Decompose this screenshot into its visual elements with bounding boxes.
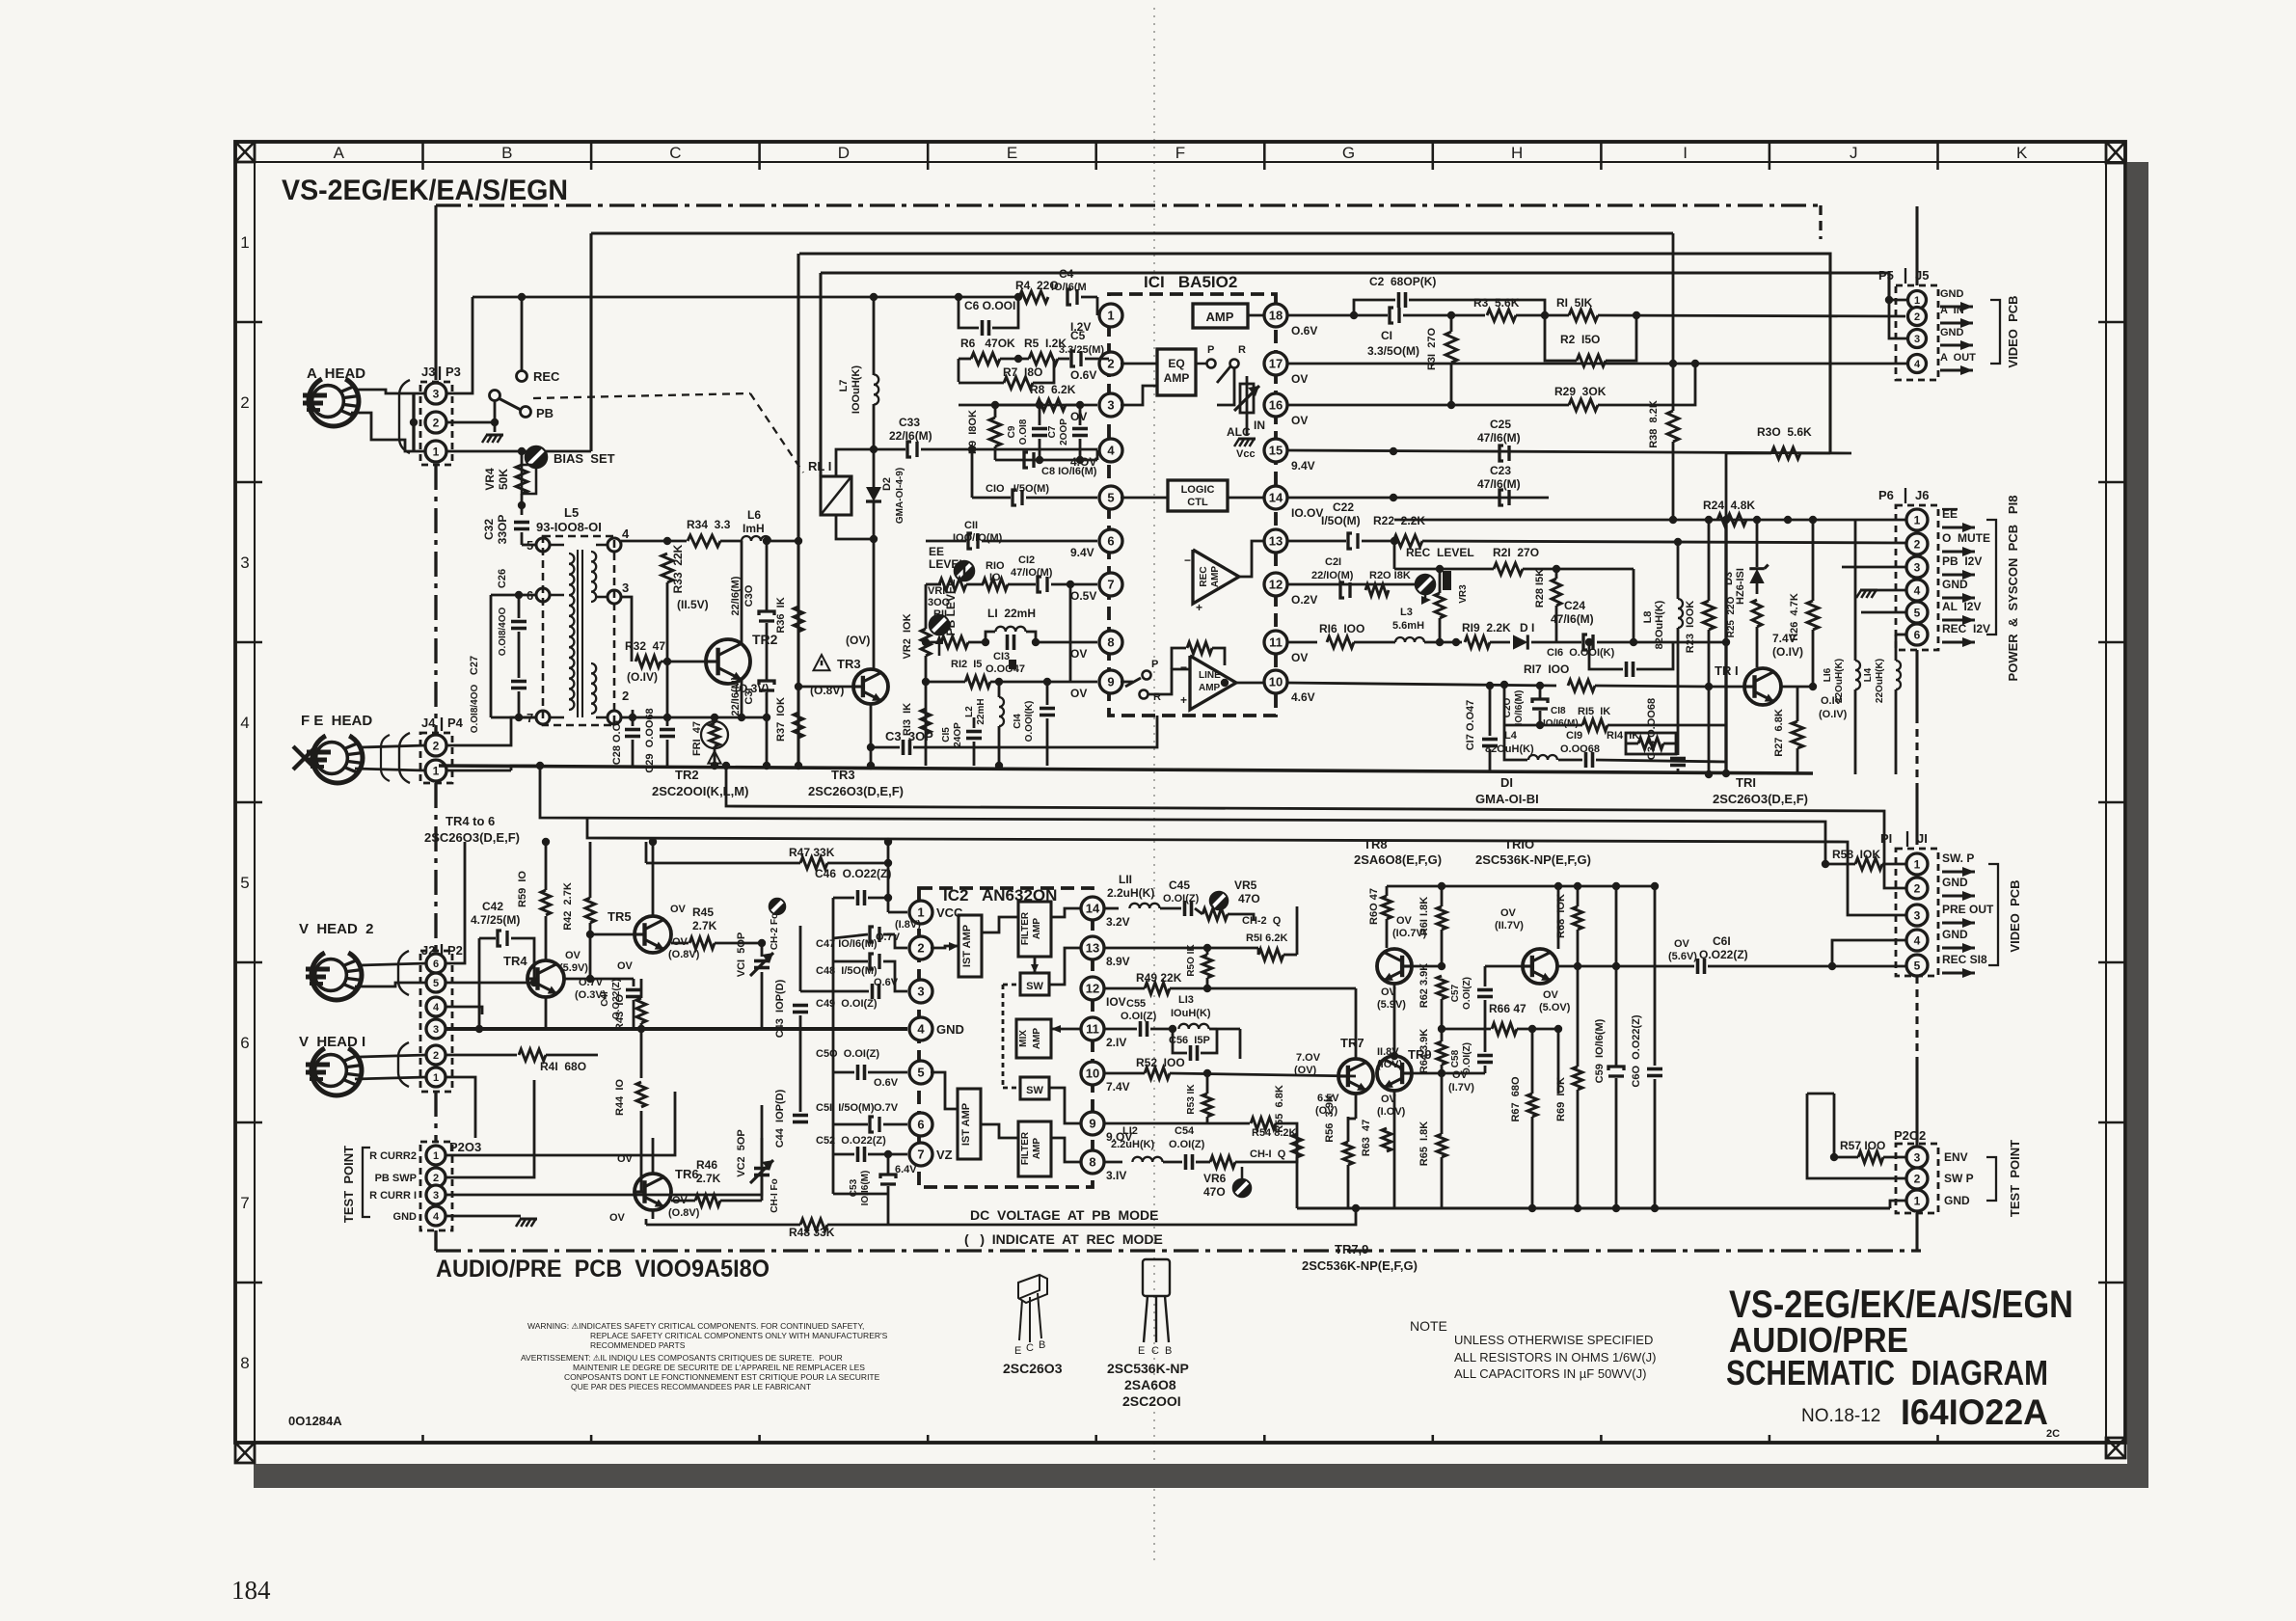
arrow into 1st amp upper (949, 942, 959, 951)
svg-text:IN: IN (1254, 419, 1265, 432)
connector P1 pin 3 (1906, 905, 1928, 926)
wire FR1 leads (714, 717, 716, 723)
svg-text:VR6: VR6 (1203, 1172, 1227, 1185)
svg-text:2SC26O3(D,E,F): 2SC26O3(D,E,F) (424, 830, 520, 845)
L16 coil (1855, 661, 1860, 689)
wire RL1 top stub (836, 449, 874, 476)
R67 actual (1531, 1029, 1534, 1094)
svg-text:13: 13 (1086, 941, 1099, 956)
TR3 warning triangle (814, 655, 830, 670)
dashed diagonal to RL1 (750, 393, 803, 473)
wire pin10 right (1287, 683, 1556, 686)
svg-text:AMP: AMP (1164, 371, 1190, 385)
P1 pin 5 arrow (1942, 971, 1975, 974)
svg-text:C45: C45 (1169, 878, 1190, 892)
svg-text:TR5: TR5 (608, 909, 632, 924)
connector P1 pin 4 (1906, 930, 1928, 951)
grid column tick C (590, 142, 593, 170)
svg-text:(5.OV): (5.OV) (1539, 1002, 1571, 1013)
IC1 pin 7 (1097, 573, 1121, 596)
svg-text:11: 11 (1269, 635, 1283, 650)
wire R57 feed (1833, 1094, 1836, 1157)
svg-text:18: 18 (1269, 309, 1283, 323)
wire pin16 right (1287, 404, 1475, 407)
svg-text:10: 10 (1269, 675, 1283, 689)
svg-text:5: 5 (1914, 959, 1921, 972)
R67 resistor (1527, 1094, 1537, 1117)
R13 resistor (921, 709, 931, 734)
svg-text:K: K (2016, 144, 2028, 162)
IC2 pin 12 (1081, 977, 1104, 1000)
svg-text:TR2: TR2 (675, 768, 699, 782)
svg-text:E: E (1014, 1345, 1021, 1357)
scan shadow band right edge (2127, 162, 2148, 1488)
connector P6 pin 1 (1906, 509, 1928, 530)
svg-text:R55 6.8K: R55 6.8K (1274, 1085, 1285, 1133)
svg-text:2: 2 (433, 1173, 439, 1184)
R56 resistor (1343, 1142, 1353, 1165)
svg-text:C8 IO/I6(M): C8 IO/I6(M) (1041, 466, 1097, 477)
svg-text:3: 3 (1914, 560, 1921, 574)
svg-text:C: C (1151, 1345, 1159, 1357)
C24 capacitor (1591, 635, 1594, 650)
VR3 column wires (1439, 569, 1442, 593)
svg-text:CI3: CI3 (993, 651, 1010, 662)
svg-text:C59 IO/I6(M): C59 IO/I6(M) (1594, 1018, 1606, 1083)
L5 core lines (577, 550, 579, 717)
wire LINE AMP out to pin10 (1236, 682, 1264, 685)
svg-text:2C: 2C (2046, 1428, 2060, 1440)
svg-text:RECOMMENDED PARTS: RECOMMENDED PARTS (590, 1340, 686, 1350)
svg-text:9: 9 (1089, 1117, 1095, 1131)
svg-text:6: 6 (1914, 628, 1921, 641)
wire J2 pin3 right (gnd trace) (446, 1027, 907, 1031)
svg-text:NOTE: NOTE (1410, 1318, 1447, 1334)
wire C8 to pin4 (1096, 450, 1099, 460)
IC1 pin 2 (1097, 352, 1121, 375)
R17 resistor (1568, 680, 1595, 691)
wire TR10 body (1557, 886, 1560, 949)
IC1 pin 16 (1264, 393, 1287, 417)
P5 pin 1 arrow (1940, 305, 1973, 308)
R14 leads (1626, 743, 1638, 745)
svg-text:9: 9 (1107, 675, 1114, 689)
svg-text:ENV: ENV (1944, 1150, 1968, 1164)
svg-text:3.IV: 3.IV (1106, 1169, 1126, 1182)
svg-text:IO/I6(M): IO/I6(M) (1543, 718, 1579, 729)
wire R54 right (1276, 1123, 1297, 1148)
svg-text:4.6V: 4.6V (1291, 690, 1315, 704)
R47 resistor (800, 857, 827, 869)
wire VCC into pin1 (888, 911, 907, 914)
svg-text:22OuH(K): 22OuH(K) (1875, 659, 1885, 703)
svg-text:2SC536K-NP(E,F,G): 2SC536K-NP(E,F,G) (1302, 1258, 1418, 1273)
C19 capacitor (1584, 752, 1588, 768)
svg-text:C44 IOP(D): C44 IOP(D) (774, 1089, 786, 1148)
connector P203 dashed box (420, 1142, 452, 1230)
svg-text:8: 8 (1107, 635, 1114, 650)
svg-text:CH-2 Fo: CH-2 Fo (770, 913, 780, 950)
wire R34 to L6 (720, 540, 741, 543)
wire L5 pin3 to R32 (621, 597, 632, 662)
svg-text:AMP: AMP (1206, 310, 1234, 324)
arrow mix out (1051, 1025, 1061, 1033)
wire V HEAD2 low to J2 pin5 (355, 983, 426, 986)
svg-text:VIDEO PCB: VIDEO PCB (2008, 879, 2022, 952)
border frame right column line (2105, 142, 2107, 1443)
wire mix amp to pin11 (1051, 1028, 1081, 1031)
wire C48 (833, 960, 868, 963)
wire TR1 base from R23 (1709, 686, 1745, 689)
svg-text:O MUTE: O MUTE (1942, 531, 1990, 545)
svg-text:1: 1 (433, 445, 440, 458)
svg-text:IO/I6(M): IO/I6(M) (1514, 690, 1525, 726)
svg-text:C42: C42 (482, 900, 503, 913)
svg-text:R57 IOO: R57 IOO (1840, 1139, 1885, 1152)
svg-text:CH-I Q: CH-I Q (1250, 1148, 1286, 1160)
R12 resistor (965, 676, 990, 688)
wire pin12 right to VR3 (1287, 583, 1416, 586)
svg-text:PB SWP: PB SWP (375, 1173, 417, 1184)
svg-text:D3: D3 (1723, 572, 1735, 585)
wire R66 row (1442, 1028, 1491, 1031)
wire TR9 emitter up (1393, 1055, 1396, 1058)
wire C17 (1489, 686, 1492, 736)
L11 coil (1129, 904, 1159, 908)
wire R46 right (720, 1200, 762, 1202)
wire C26/C27 vertical (490, 595, 493, 717)
wire P202 pin2 link (1807, 1094, 1906, 1178)
svg-text:NO.18-12: NO.18-12 (1801, 1406, 1880, 1426)
svg-text:PB LEVEL: PB LEVEL (944, 580, 958, 636)
svg-text:2SC2OOI(K,L,M): 2SC2OOI(K,L,M) (652, 784, 748, 798)
svg-text:IST AMP: IST AMP (961, 925, 973, 967)
R63 resistor (1382, 1128, 1391, 1151)
svg-text:2: 2 (433, 416, 440, 429)
C10 capacitor (1020, 490, 1023, 505)
svg-text:2SC26O3(D,E,F): 2SC26O3(D,E,F) (1713, 792, 1808, 806)
svg-text:O.OI8/4OO: O.OI8/4OO (470, 684, 480, 733)
wire R58 (1825, 863, 1855, 866)
svg-text:R45: R45 (692, 905, 714, 919)
svg-text:P2O2: P2O2 (1894, 1128, 1926, 1143)
wire into P6 pin5 (1861, 611, 1906, 614)
border frame header strip line (235, 161, 2125, 163)
wire TR8 collector down (1393, 984, 1396, 1056)
wire VR6 wiper (1241, 1167, 1244, 1180)
wire L11 to C45 (1160, 907, 1181, 910)
svg-text:LI3: LI3 (1178, 994, 1194, 1006)
L2 coil (999, 697, 1004, 726)
svg-text:2: 2 (240, 393, 249, 412)
svg-text:RIO: RIO (986, 560, 1005, 572)
svg-text:C29 O.OO68: C29 O.OO68 (644, 708, 656, 772)
svg-text:FILTER: FILTER (1020, 1131, 1031, 1165)
wire R56 (1347, 1117, 1350, 1142)
svg-text:VZ: VZ (936, 1148, 953, 1162)
svg-text:GND: GND (1942, 876, 1968, 889)
svg-text:R53 IK: R53 IK (1186, 1084, 1197, 1115)
P6 pin 6 arrow (1942, 640, 1975, 643)
EE LEVEL pot dot (955, 561, 974, 581)
svg-text:4: 4 (1107, 444, 1115, 458)
P6 dashed stub below (1915, 650, 1918, 716)
R48 resistor (800, 1219, 827, 1230)
svg-text:GND: GND (936, 1022, 964, 1037)
TR10 transistor (1523, 949, 1557, 984)
junction top feed (518, 293, 526, 301)
svg-text:22mH: 22mH (976, 698, 986, 724)
svg-text:REPLACE SAFETY CRITICAL COMPON: REPLACE SAFETY CRITICAL COMPONENTS ONLY … (590, 1331, 888, 1340)
C46 loop (833, 897, 854, 900)
R32 resistor (635, 656, 661, 667)
C29 capacitor (660, 728, 675, 732)
svg-text:(O.IV): (O.IV) (1772, 645, 1803, 659)
connector J2 pin 2 (426, 1045, 446, 1065)
IC1 pin 6 (1097, 529, 1121, 553)
L5 pin 7 (536, 711, 550, 724)
pcb boundary dash-dot bottom (436, 1249, 1921, 1252)
svg-text:TEST POINT: TEST POINT (341, 1146, 356, 1223)
svg-text:O.O22(Z): O.O22(Z) (1699, 948, 1748, 961)
svg-text:B: B (1039, 1339, 1045, 1351)
P5 bracket (1990, 300, 2000, 364)
svg-text:24OP: 24OP (953, 722, 963, 747)
svg-text:R49 22K: R49 22K (1136, 971, 1182, 985)
svg-text:2: 2 (1914, 537, 1921, 551)
L1 coil (995, 627, 1025, 632)
wire C24 right (1597, 641, 1726, 644)
wire pin10 row (1104, 1072, 1145, 1075)
svg-text:33OP: 33OP (496, 515, 509, 545)
R25 resistor (1752, 600, 1762, 627)
wire pin14 right (1104, 907, 1119, 910)
svg-text:CI7 O.O47: CI7 O.O47 (1465, 700, 1476, 751)
IC2 pin 2 (907, 936, 931, 959)
REC switch contact (517, 371, 527, 382)
wire filter upper to pin14 (1051, 908, 1081, 917)
wire pin3 to EQ AMP (1121, 386, 1157, 405)
wire pin13 right (1287, 540, 1346, 543)
L5 winding stubs (550, 544, 564, 547)
L5 dashed box (543, 536, 614, 725)
C3 wire (871, 746, 900, 749)
wire C51 (833, 1123, 868, 1126)
svg-text:3: 3 (622, 581, 629, 595)
wire R22 right (O MUTE line) (1362, 540, 1393, 543)
wire R60 (1386, 886, 1389, 896)
R57 resistor (1858, 1151, 1883, 1163)
wire TR3 emitter (870, 704, 873, 766)
R42 resistor (585, 898, 595, 923)
wire J2 pin1 right down (446, 1077, 475, 1138)
svg-text:47O: 47O (1203, 1185, 1226, 1199)
svg-text:GMA-OI-4-9): GMA-OI-4-9) (895, 468, 905, 524)
feedback resistor LINE AMP (1172, 648, 1186, 669)
svg-text:TR3: TR3 (831, 768, 855, 782)
R46 resistor (695, 1195, 720, 1206)
C43 capacitor (793, 1004, 808, 1008)
svg-text:L3: L3 (1400, 607, 1413, 618)
wire R62 down (1441, 999, 1444, 1029)
C56 capacitor (1189, 1045, 1193, 1061)
corner X-box bottom-left (235, 1443, 255, 1463)
R44 resistor (636, 1082, 646, 1107)
svg-text:J3: J3 (421, 365, 435, 379)
wire top feed to R4 row (473, 296, 1018, 299)
R21 resistor (1494, 563, 1523, 575)
svg-text:22/IO(M): 22/IO(M) (1311, 570, 1354, 581)
wire AMP to pin18 (1248, 314, 1264, 317)
wire pin1 entry (1096, 297, 1099, 315)
IC1 pin 18 (1264, 304, 1287, 327)
C28 capacitor (625, 728, 640, 732)
svg-text:C57: C57 (1450, 984, 1461, 1002)
svg-text:2.7K: 2.7K (692, 919, 717, 932)
R14 resistor (1638, 738, 1663, 749)
wire D2 column (873, 449, 876, 487)
connector P5/J5 dashed box (1896, 285, 1938, 380)
wire J4 pin1 right to main bus (446, 770, 511, 772)
svg-text:1: 1 (1107, 309, 1114, 323)
wire L12 to C54 (1163, 1161, 1182, 1164)
L3 coil (1395, 637, 1424, 642)
L1/C13 loop (986, 632, 995, 642)
wire TR9 base (1412, 1072, 1485, 1075)
R9/C9/C7 ladder bottom (994, 446, 997, 460)
svg-text:4: 4 (433, 1211, 440, 1223)
svg-text:C3I: C3I (743, 688, 755, 704)
wire VR2 (925, 584, 928, 629)
C15 capacitor (966, 730, 982, 734)
svg-text:C3O: C3O (743, 584, 755, 607)
svg-text:CI5: CI5 (941, 727, 952, 743)
C48 capacitor (878, 954, 880, 969)
svg-text:OV: OV (1674, 938, 1690, 950)
svg-text:IOV: IOV (1106, 995, 1126, 1009)
junction R33 top (663, 537, 671, 545)
svg-text:RI5 IK: RI5 IK (1578, 706, 1610, 717)
svg-text:OV: OV (1291, 414, 1308, 427)
svg-text:R52 IOO: R52 IOO (1136, 1056, 1185, 1069)
svg-text:2SA6O8(E,F,G): 2SA6O8(E,F,G) (1354, 852, 1442, 867)
svg-text:8: 8 (1089, 1155, 1095, 1170)
main ground bus y794 (439, 766, 1813, 773)
svg-text:R62 3.9K: R62 3.9K (1418, 963, 1430, 1009)
IC1 ALC pot (1246, 376, 1249, 424)
svg-text:SW: SW (1026, 1085, 1043, 1096)
IC1 pin 13 (1264, 529, 1287, 553)
svg-text:CONPOSANTS DONT LE FONCTIONNEM: CONPOSANTS DONT LE FONCTIONNEMENT EST CR… (564, 1372, 880, 1382)
IC1 pin 5 (1097, 486, 1121, 509)
pot dot ch2 (770, 899, 785, 914)
wire J4 pin2 right (446, 717, 537, 745)
svg-text:REC LEVEL: REC LEVEL (1406, 546, 1474, 559)
R62 resistor (1437, 976, 1446, 999)
C52 capacitor (856, 1147, 860, 1162)
connector P202 pin 1 (1906, 1190, 1928, 1211)
wire R36 to TR3 base (798, 686, 853, 689)
svg-text:1: 1 (1914, 857, 1921, 871)
R52 resistor (1145, 1067, 1170, 1079)
wire y539 R24 row (1394, 519, 1870, 522)
wire C28/C29 hang (632, 710, 635, 717)
wire L4 row (1504, 725, 1527, 760)
bottom rail right block (1297, 1206, 1890, 1209)
pcb boundary dash-dot left upper (434, 465, 437, 733)
svg-text:ALL CAPACITORS IN µF 50WV(J): ALL CAPACITORS IN µF 50WV(J) (1454, 1366, 1646, 1381)
svg-text:L7: L7 (838, 380, 850, 392)
R30 wires (1800, 452, 1830, 455)
connector P6 pin 6 (1906, 624, 1928, 645)
IC1 pin 15 (1264, 439, 1287, 462)
svg-text:5: 5 (1107, 491, 1114, 505)
wire R44 (640, 1111, 643, 1192)
IC2 MIX AMP block (1016, 1019, 1051, 1058)
wire R55 (1296, 1157, 1299, 1208)
connector P1 pin 2 (1906, 878, 1928, 899)
wire filter lower to pin8 (1051, 1138, 1081, 1162)
svg-text:P: P (1151, 659, 1158, 670)
grid row tick 7 (235, 1121, 262, 1124)
bus wire row2 vertical x613 (589, 233, 592, 451)
svg-text:R CURR I: R CURR I (369, 1190, 417, 1202)
wire J2 pin4 stub (446, 1007, 482, 1014)
svg-text:A IN: A IN (1940, 305, 1964, 316)
TR2 transistor (706, 639, 750, 684)
svg-text:7.OV: 7.OV (1296, 1052, 1321, 1064)
svg-text:82OuH(K): 82OuH(K) (1654, 600, 1665, 649)
svg-text:8: 8 (240, 1354, 249, 1372)
arrow filter-sw (1031, 964, 1039, 973)
wire R48 row (646, 1224, 800, 1227)
P1 pin 2 arrow (1942, 894, 1975, 897)
svg-text:( ) INDICATE AT REC MODE: ( ) INDICATE AT REC MODE (964, 1231, 1163, 1247)
svg-text:O.OOI(K): O.OOI(K) (1024, 701, 1035, 743)
wire FE HEAD to J4 (361, 745, 425, 747)
svg-text:R: R (1238, 344, 1246, 356)
svg-text:R2I 27O: R2I 27O (1493, 546, 1539, 559)
wire TR7 collector up (1355, 988, 1358, 1059)
svg-text:OV: OV (1543, 989, 1559, 1001)
wire C27 path (518, 658, 521, 678)
svg-text:7.4V: 7.4V (1106, 1080, 1130, 1094)
svg-text:5: 5 (433, 978, 439, 989)
L14 coil (1896, 661, 1901, 689)
IC1 pin 3 (1097, 393, 1121, 417)
R37 resistor (794, 713, 803, 738)
svg-text:C55: C55 (1126, 998, 1146, 1010)
R28 resistor (1552, 579, 1561, 606)
connector P6 pin 4 (1906, 580, 1928, 601)
pcb boundary dash-dot top (436, 203, 1821, 206)
wire TR6 emitter right (671, 1200, 695, 1202)
scan shadow band bottom edge (254, 1464, 2148, 1488)
VR1 300 pot (939, 579, 966, 590)
IC2 pin 14 (1081, 897, 1104, 920)
svg-text:C28 O.OI: C28 O.OI (611, 720, 623, 765)
ground switch (494, 422, 497, 432)
svg-text:C5: C5 (1070, 329, 1086, 342)
J2 coupling arc lower (398, 1042, 409, 1087)
grid column tick I (1600, 142, 1603, 170)
connector P203 pin 3 (426, 1185, 446, 1204)
IC1 pin 14 (1264, 486, 1287, 509)
wire J3 pin1 right (446, 450, 591, 453)
bus y868 (587, 818, 1905, 915)
R2 resistor (1577, 355, 1606, 366)
EE overline (1942, 508, 1958, 510)
